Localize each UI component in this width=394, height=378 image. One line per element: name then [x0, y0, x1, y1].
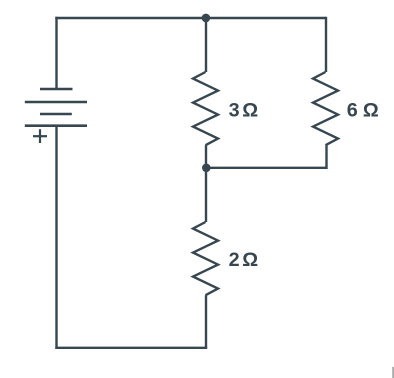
resistor R1 3-ohm [193, 72, 218, 145]
battery plus polarity mark [33, 129, 47, 143]
wire 2-ohm bottom lead [205, 295, 207, 348]
wire 2-ohm top lead [205, 168, 207, 222]
wire left upper (battery top lead) [55, 17, 57, 89]
svg-text:Ω: Ω [242, 249, 258, 271]
wire 6-ohm top lead [325, 17, 327, 72]
scrollbar fragment bottom-right [392, 367, 394, 378]
node junction dot middle [202, 164, 211, 173]
svg-text:6: 6 [347, 100, 358, 122]
svg-text:Ω: Ω [242, 99, 258, 121]
battery B1 [25, 89, 87, 126]
svg-text:3: 3 [229, 99, 240, 121]
wire middle rail (node to 6-ohm) [206, 167, 327, 169]
svg-text:Ω: Ω [363, 100, 379, 122]
wire bottom rail [55, 347, 207, 349]
svg-text:2: 2 [229, 249, 240, 271]
wire top rail [55, 17, 326, 19]
resistor R2 6-ohm [313, 72, 338, 145]
wire 3-ohm top lead [205, 18, 207, 72]
wire 6-ohm bottom lead [325, 145, 327, 169]
node junction dot top [202, 14, 211, 23]
wire left lower (battery bottom lead) [55, 126, 57, 349]
resistor R3 2-ohm [193, 222, 218, 295]
wire 3-ohm bottom lead [205, 145, 207, 168]
